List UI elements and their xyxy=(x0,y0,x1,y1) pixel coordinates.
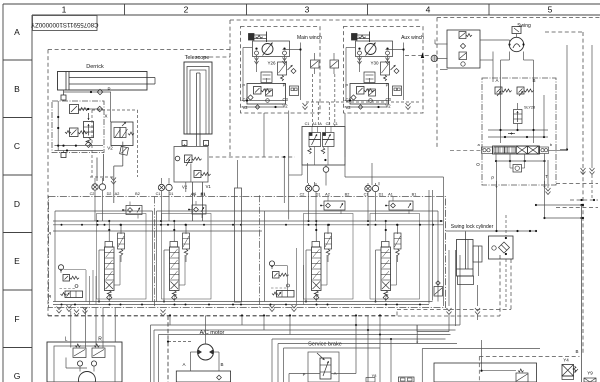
svg-text:P: P xyxy=(491,176,494,181)
svg-text:C2: C2 xyxy=(300,193,305,197)
port labels row xyxy=(90,192,417,197)
svg-text:V2: V2 xyxy=(346,105,352,110)
Aux winch balance valve box xyxy=(345,83,389,105)
svg-text:B: B xyxy=(575,349,578,354)
LR motor circle xyxy=(66,358,96,382)
derrick relief valve 2 xyxy=(65,128,88,137)
Aux winch bottom wires xyxy=(345,99,388,110)
main winch port valves xyxy=(320,197,345,214)
swing crossover relief B xyxy=(517,82,534,143)
bottom left port block xyxy=(399,377,415,382)
svg-text:P: P xyxy=(242,83,245,88)
svg-text:3: 3 xyxy=(305,5,310,15)
derrick port connector xyxy=(61,90,66,101)
svg-text:P: P xyxy=(345,83,348,88)
swing valve lower ports xyxy=(476,161,548,181)
svg-text:P: P xyxy=(303,372,306,377)
winch box outlet drops xyxy=(264,113,345,157)
central pilot valve 2 xyxy=(321,127,334,166)
wire bundle horizontals xyxy=(151,325,461,339)
valve bank dash-dot boundary xyxy=(49,195,446,307)
svg-text:V2: V2 xyxy=(283,104,289,109)
svg-text:A/C motor: A/C motor xyxy=(200,330,225,336)
brake shuttle valve 2 xyxy=(330,53,339,74)
swing brake valve box xyxy=(447,30,480,68)
svg-text:4: 4 xyxy=(426,5,431,15)
swing pilot solenoid SLY28 xyxy=(514,103,536,130)
bottom right dashed xyxy=(479,357,579,382)
telescope wires down xyxy=(185,144,207,221)
Main winch motor xyxy=(253,41,290,64)
swing lock filter xyxy=(489,215,514,309)
svg-text:D: D xyxy=(14,199,20,209)
solenoid Y9 xyxy=(584,371,596,382)
central manifold pilot stubs xyxy=(306,74,420,127)
aux winch port valves xyxy=(385,197,413,214)
svg-text:B: B xyxy=(220,362,223,367)
svg-text:V2: V2 xyxy=(386,104,392,109)
swing bridge network xyxy=(488,129,548,138)
winch drop wires xyxy=(209,111,379,220)
svg-text:B1: B1 xyxy=(412,193,417,197)
left bank inlet section xyxy=(58,265,82,298)
svg-text:E: E xyxy=(14,256,20,266)
Aux winch solenoid valve Y30 xyxy=(370,61,399,82)
valve bank body outline xyxy=(55,211,438,302)
svg-text:B1: B1 xyxy=(201,192,206,196)
swing motor xyxy=(508,37,524,51)
svg-text:C: C xyxy=(14,141,20,151)
central pilot valve 1 xyxy=(308,127,321,166)
derrick balance wires xyxy=(55,101,104,153)
service brake box xyxy=(308,352,339,382)
wires bank to LR box xyxy=(71,308,115,348)
left inlet side wires xyxy=(64,270,97,305)
svg-text:q: q xyxy=(49,230,51,235)
bottom right manifold box xyxy=(434,363,537,382)
Main winch shuttle block xyxy=(261,72,272,83)
wire bundle verticals xyxy=(151,316,458,382)
bottom dashed boundary xyxy=(48,259,511,382)
svg-text:G: G xyxy=(14,371,21,381)
svg-text:D2: D2 xyxy=(107,192,112,196)
LR motor box xyxy=(47,342,122,382)
Aux winch outlet chevron xyxy=(406,103,411,106)
Y8 valve xyxy=(366,374,376,382)
AC motor xyxy=(182,344,223,367)
svg-text:A: A xyxy=(14,27,20,37)
telescope cylinder xyxy=(184,62,212,146)
derrick pilot solenoid box xyxy=(107,122,134,151)
bank section frames xyxy=(97,214,420,300)
Main winch brake cylinder xyxy=(249,32,267,43)
svg-text:Derrick: Derrick xyxy=(86,64,104,70)
trunk pipe center xyxy=(235,160,242,302)
central manifold labels xyxy=(305,122,338,126)
valve bank q marks xyxy=(49,230,51,298)
derrick port valves xyxy=(122,202,142,219)
main winch spool xyxy=(305,220,332,303)
svg-text:Y26: Y26 xyxy=(267,61,276,66)
dashed dot stubs xyxy=(170,316,290,335)
svg-text:C3: C3 xyxy=(283,97,289,102)
Main winch port labels xyxy=(243,97,289,110)
svg-text:V2: V2 xyxy=(182,185,188,190)
solenoid Y4 xyxy=(562,358,578,380)
svg-text:Telescope: Telescope xyxy=(185,55,210,61)
svg-text:V2: V2 xyxy=(107,146,113,151)
Aux winch port labels xyxy=(346,97,392,110)
swing right chevrons xyxy=(546,45,595,200)
derrick port connector bottom xyxy=(61,153,66,158)
Aux winch port block xyxy=(393,86,402,96)
swing crossover relief A xyxy=(495,82,512,143)
derrick pilot valve dashed box xyxy=(92,110,138,177)
Main winch solenoid valve Y26 xyxy=(267,61,296,82)
gauge pair telescope xyxy=(158,184,172,190)
bank bus lines xyxy=(53,220,443,231)
Aux winch brake cylinder xyxy=(352,32,370,43)
subsystem dashed boundary winches xyxy=(196,20,420,156)
svg-text:D1: D1 xyxy=(379,193,384,197)
svg-text:A2: A2 xyxy=(325,193,330,197)
swing P T drop wires xyxy=(446,161,584,232)
Main winch dashed box xyxy=(241,27,321,114)
Aux winch motor xyxy=(356,41,393,64)
bank right end relief xyxy=(434,281,443,296)
gauge drop wires xyxy=(95,178,376,221)
Main winch outlet chevron xyxy=(303,103,308,106)
winch inlet side wires xyxy=(275,248,304,305)
svg-text:A1: A1 xyxy=(312,122,317,126)
svg-text:B: B xyxy=(532,78,535,83)
svg-text:V1: V1 xyxy=(206,184,212,189)
svg-text:O: O xyxy=(476,162,480,167)
svg-text:P: P xyxy=(107,87,110,92)
subsystem dashed boundary left (derrick/telescope) xyxy=(48,50,230,317)
svg-text:A2: A2 xyxy=(115,192,120,196)
swing lock cylinder xyxy=(457,232,483,285)
bus outlet chevrons xyxy=(57,305,297,316)
derrick cylinder xyxy=(58,72,156,91)
svg-text:C80755911S1000000ZY: C80755911S1000000ZY xyxy=(31,21,99,28)
right dashed rails xyxy=(556,184,598,208)
derrick relief line xyxy=(79,92,111,122)
svg-text:C2: C2 xyxy=(90,192,95,196)
gauge pair aux winch xyxy=(365,185,379,191)
svg-text:C1: C1 xyxy=(305,122,310,126)
derrick balance valve box xyxy=(52,101,104,153)
svg-text:C1: C1 xyxy=(333,122,338,126)
svg-text:B2: B2 xyxy=(345,193,350,197)
svg-text:B: B xyxy=(14,84,20,94)
svg-text:Swing: Swing xyxy=(517,23,531,29)
winch bank inlet section xyxy=(269,261,294,297)
telescope valve block xyxy=(174,147,211,198)
Aux winch shuttle block xyxy=(364,72,375,83)
derrick wires to valve bank xyxy=(90,142,123,203)
central manifold drain xyxy=(323,165,329,186)
bottom right feed wires xyxy=(416,325,540,382)
gauge pair main winch xyxy=(305,185,319,191)
service brake valve xyxy=(289,353,356,379)
telescope ports xyxy=(182,141,209,146)
svg-text:1: 1 xyxy=(62,5,67,15)
Main winch balance valve box xyxy=(242,83,286,105)
swing motor wires xyxy=(480,40,534,82)
LR brake valve L xyxy=(73,344,86,366)
svg-text:C3: C3 xyxy=(386,97,392,102)
svg-text:Y9: Y9 xyxy=(587,371,593,376)
central manifold box xyxy=(302,127,345,166)
swing valve dash-dot box xyxy=(482,78,556,185)
svg-text:A1: A1 xyxy=(192,192,197,196)
svg-text:B2: B2 xyxy=(135,192,140,196)
svg-text:P: P xyxy=(283,83,286,88)
svg-text:C2: C2 xyxy=(326,122,331,126)
swing brake release cylinder xyxy=(512,27,521,38)
aux winch spool xyxy=(375,220,402,303)
derrick pilot drain symbol xyxy=(120,146,129,155)
svg-text:A1: A1 xyxy=(388,193,393,197)
svg-text:A: A xyxy=(319,122,322,126)
svg-text:V2: V2 xyxy=(243,105,249,110)
derrick pilot P line xyxy=(64,87,112,95)
derrick counterbalance cartridge xyxy=(84,113,108,148)
bottom dashed bus boundary xyxy=(48,255,500,382)
svg-text:X: X xyxy=(104,114,107,119)
Main winch bottom wires xyxy=(242,99,285,110)
Aux winch internal wires xyxy=(346,43,405,101)
swing valve end caps xyxy=(450,142,567,154)
svg-text:Y30: Y30 xyxy=(370,61,379,66)
derrick spool xyxy=(98,220,125,303)
bank bottom bus xyxy=(53,302,433,306)
svg-text:Service brake: Service brake xyxy=(308,342,342,348)
svg-text:Y4: Y4 xyxy=(563,358,569,363)
swing supply gauge xyxy=(405,40,448,70)
svg-text:C1: C1 xyxy=(156,192,161,196)
subsystem dashed boundary swing xyxy=(437,18,600,356)
svg-text:Aux winch: Aux winch xyxy=(401,35,424,41)
right drop wires xyxy=(417,177,480,332)
swing B bridge stub xyxy=(544,95,583,219)
svg-text:Swing lock cylinder: Swing lock cylinder xyxy=(451,224,494,230)
svg-text:SLY28: SLY28 xyxy=(524,106,535,110)
gauge pair derrick xyxy=(92,184,106,190)
manifold to swing wire xyxy=(345,165,444,177)
svg-text:q: q xyxy=(49,293,51,298)
LR brake valve R xyxy=(91,344,105,366)
telescope port valves xyxy=(188,201,206,218)
AC motor enclosure xyxy=(167,316,231,382)
svg-text:P: P xyxy=(386,83,389,88)
LR box labels xyxy=(65,337,103,343)
swing main control valve xyxy=(493,146,540,154)
title block xyxy=(31,16,99,31)
telescope spool xyxy=(163,220,190,303)
Main winch port block xyxy=(290,86,299,96)
Main winch internal wires xyxy=(243,43,302,101)
svg-text:5: 5 xyxy=(548,5,553,15)
svg-text:Main winch: Main winch xyxy=(297,35,322,41)
derrick relief valve 1 xyxy=(70,105,89,114)
svg-text:2: 2 xyxy=(184,5,189,15)
svg-text:A: A xyxy=(495,78,498,83)
brake shuttle valve 1 xyxy=(311,53,320,74)
svg-text:A: A xyxy=(182,362,185,367)
svg-text:F: F xyxy=(14,314,19,324)
right trunk vertical xyxy=(575,205,581,382)
Aux winch dashed box xyxy=(344,27,424,114)
swing valve lower bridge xyxy=(495,154,546,163)
